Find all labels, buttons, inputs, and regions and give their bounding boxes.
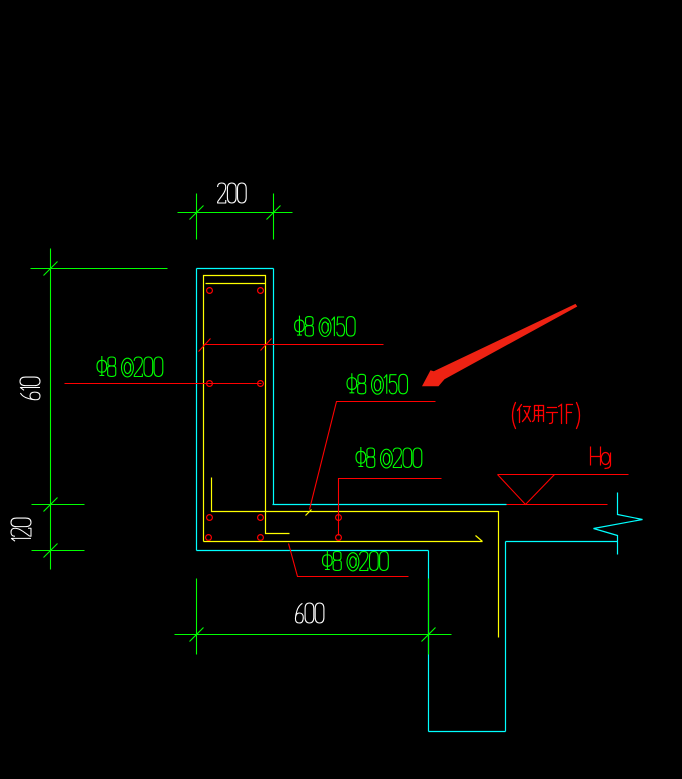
rebar section circles (red) xyxy=(206,288,342,541)
rebar label phi8@200 bottom xyxy=(323,551,389,571)
left dim ticks xyxy=(44,262,58,276)
footing bottom row bars xyxy=(206,535,212,541)
leader of phi8@200 middle label xyxy=(339,479,442,536)
stirrup bottom / slab bottom bar B xyxy=(204,541,483,543)
char: ren radical of jin xyxy=(518,405,522,423)
beam right edge xyxy=(505,542,507,732)
annotation arrow (red) xyxy=(422,304,577,386)
leader of phi8@200 bottom label xyxy=(289,544,409,577)
rebar label phi8@200 middle xyxy=(356,447,422,468)
dim 600: ticks xyxy=(190,628,204,642)
slab bottom edge right of beam xyxy=(506,541,618,543)
tick slash left xyxy=(199,339,211,352)
char: yu xyxy=(547,408,558,424)
footing bottom edge xyxy=(197,550,429,552)
stirrup closing lap (second top bar) and right leg with bottom hook xyxy=(206,284,290,534)
dimension text 610 (rotated) xyxy=(20,377,40,400)
left dim: bottom extension line xyxy=(32,550,85,552)
leader of phi8@150 label 2 xyxy=(310,402,436,510)
open paren xyxy=(513,403,516,429)
dimension text 600 xyxy=(295,603,323,623)
slab top edge xyxy=(273,504,507,506)
letter F xyxy=(567,405,573,424)
char: yong xyxy=(533,406,544,422)
level line lower (slab top continuation) xyxy=(507,504,608,506)
bar B arrow tick xyxy=(476,536,483,542)
rebar label phi8@150 upper xyxy=(295,316,356,337)
note text (only for 1F) drawn strokes xyxy=(513,403,580,429)
wall top edge xyxy=(197,268,274,270)
level line upper xyxy=(498,474,629,476)
level tag Hg xyxy=(591,447,611,469)
char: you part of jin xyxy=(523,407,531,422)
rebar label phi8@200 left xyxy=(97,356,163,377)
horizontal wall bar line (phi8@150 upper) xyxy=(204,344,384,346)
left dim chain: vertical dimension line xyxy=(50,249,52,570)
dimension text 120 (rotated) xyxy=(11,518,31,541)
beam left edge xyxy=(428,551,430,732)
digit 1 xyxy=(559,405,562,424)
dim 600: extension lines xyxy=(196,579,198,655)
left dim: middle extension line xyxy=(32,504,85,506)
concrete wall and slab outline (cyan) xyxy=(197,269,643,732)
stirrup outer: left leg, top bar xyxy=(204,276,266,542)
rebar lines and markers (red) xyxy=(65,339,629,577)
slab break symbol xyxy=(594,493,643,555)
dim 200: dimension line xyxy=(178,212,293,214)
wall right edge xyxy=(273,269,275,505)
beam bottom edge xyxy=(429,731,506,733)
wall left edge xyxy=(196,269,198,551)
tick slash right xyxy=(261,339,272,351)
footing top row bars xyxy=(207,515,213,521)
dimensions (green) xyxy=(31,194,452,655)
horizontal wall bar line (phi8@200 left) xyxy=(65,383,262,385)
yellow tick at leader end xyxy=(306,510,312,516)
reinforcement (yellow) xyxy=(204,276,499,638)
slab top bar A with hook and bend into beam xyxy=(212,478,499,638)
left dim: top extension line xyxy=(31,268,168,270)
close paren xyxy=(577,403,580,429)
dim 600: dimension line xyxy=(175,634,452,636)
dim 200: ticks xyxy=(190,206,204,220)
rebar label phi8@150 lower xyxy=(347,373,408,394)
wall middle bars xyxy=(207,381,213,387)
wall top corner bars xyxy=(207,288,213,294)
level symbol triangle xyxy=(498,475,555,505)
dim 200: extension lines xyxy=(196,194,198,240)
dimension text 200 xyxy=(218,183,247,203)
